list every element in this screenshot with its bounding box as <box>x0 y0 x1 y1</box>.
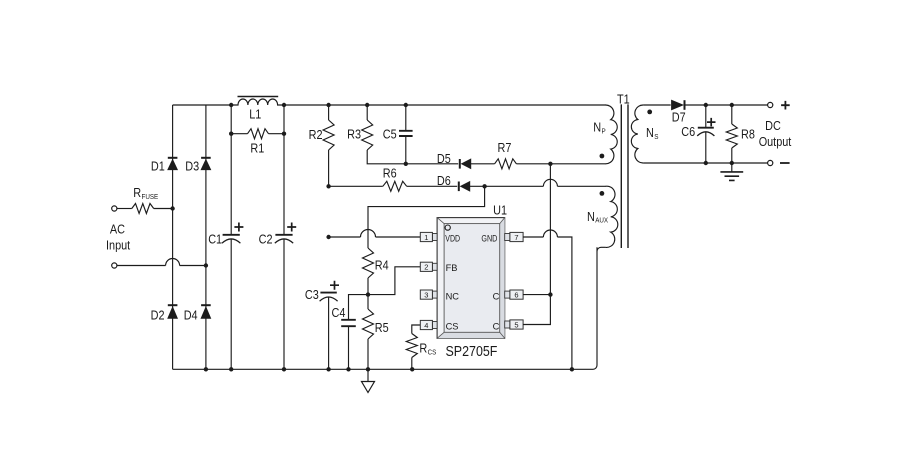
wire <box>180 265 206 267</box>
svg-text:3: 3 <box>424 290 428 299</box>
wire D6 to R4 <box>368 186 485 248</box>
label D1 <box>151 159 165 173</box>
resistor R4 <box>363 248 374 295</box>
label R5 <box>375 321 389 335</box>
wire <box>407 185 458 187</box>
node Ns polarity dot <box>647 110 652 115</box>
diode D5 <box>460 159 471 169</box>
svg-text:C: C <box>493 321 500 331</box>
svg-text:R5: R5 <box>375 321 389 335</box>
node C1 bottom <box>229 367 233 371</box>
svg-text:AC: AC <box>110 223 125 237</box>
svg-text:D5: D5 <box>437 152 451 166</box>
node R6 tap on R2 line <box>326 184 330 188</box>
svg-text:C1: C1 <box>208 233 222 247</box>
svg-text:R1: R1 <box>250 141 264 155</box>
wire hop over R4 line <box>361 230 376 237</box>
wire <box>117 208 132 210</box>
node R1 left <box>229 132 233 136</box>
node R8 top <box>730 103 734 107</box>
label - output <box>780 162 790 164</box>
capacitor C2 <box>275 134 296 370</box>
svg-text:AUX: AUX <box>595 216 608 225</box>
svg-text:C3: C3 <box>305 288 319 302</box>
pin-1 indicator <box>445 225 450 230</box>
svg-text:R8: R8 <box>741 128 755 142</box>
transformer T1 primary Np <box>605 105 617 164</box>
diode D2 <box>168 305 178 318</box>
label C3 <box>305 288 319 302</box>
capacitor C5 <box>399 105 413 164</box>
diode D4 <box>201 305 211 318</box>
transformer aux winding Naux <box>597 186 618 251</box>
label C6 <box>681 125 695 139</box>
capacitor C1 <box>222 134 243 370</box>
pin 1 <box>420 232 437 241</box>
wire pin7 to ground <box>557 237 572 369</box>
svg-text:NC: NC <box>446 291 460 301</box>
wire FB riser <box>368 267 420 295</box>
wire <box>117 265 166 267</box>
node C6 bottom <box>704 161 708 165</box>
wire secondary top <box>643 104 671 106</box>
label NC <box>446 291 460 301</box>
label C pin5 <box>493 321 500 331</box>
svg-text:VDD: VDD <box>445 233 460 243</box>
wire pin7 <box>523 236 543 238</box>
svg-text:T1: T1 <box>617 92 630 106</box>
wire R1 right leg <box>269 105 285 134</box>
wire rail D3/D4 <box>205 105 207 369</box>
transformer secondary Ns <box>631 105 643 163</box>
node R2 top <box>326 103 330 107</box>
svg-text:N: N <box>646 126 654 140</box>
node C3 bottom <box>326 367 330 371</box>
pin 3 <box>420 290 437 299</box>
svg-text:GND: GND <box>481 233 497 243</box>
svg-text:1: 1 <box>424 233 428 242</box>
diode D1 <box>168 158 178 170</box>
svg-text:CS: CS <box>428 347 437 356</box>
wire top rail <box>173 104 232 106</box>
label R2 <box>309 128 323 142</box>
svg-text:6: 6 <box>514 290 518 299</box>
node L1 left <box>229 103 233 107</box>
wire pin5 <box>523 295 550 325</box>
label D2 <box>151 308 165 322</box>
inductor L1 <box>231 97 284 106</box>
node R1 right <box>282 132 286 136</box>
diode D6 <box>459 182 470 192</box>
wire pin4 to RCS <box>412 325 421 334</box>
capacitor C4 <box>341 320 356 370</box>
node C6 top <box>704 103 708 107</box>
svg-text:SP2705F: SP2705F <box>446 344 498 360</box>
svg-text:N: N <box>587 210 595 224</box>
wire hop pin7 over C line <box>543 230 557 237</box>
label DC Output <box>759 119 792 149</box>
wire VDD line <box>329 236 361 238</box>
node R8 bottom <box>730 161 734 165</box>
wire top rail to transformer <box>284 104 606 106</box>
node R5 bottom <box>366 367 370 371</box>
label R6 <box>383 166 397 180</box>
label D5 <box>437 152 451 166</box>
label D7 <box>672 110 686 124</box>
node D6-R4 junction <box>482 184 486 188</box>
node pin7 ground <box>570 367 574 371</box>
wire C-pin vertical <box>549 164 551 295</box>
node C4 bottom <box>346 367 350 371</box>
label Ns <box>646 126 659 141</box>
DC output + terminal <box>768 102 773 107</box>
wire FB-C4 link <box>349 295 369 320</box>
svg-text:C5: C5 <box>383 128 397 142</box>
resistor R7 <box>495 159 517 169</box>
resistor R1 <box>248 129 269 139</box>
label U1 <box>493 203 507 217</box>
label R7 <box>498 141 512 155</box>
svg-text:P: P <box>602 126 606 135</box>
svg-text:Output: Output <box>759 135 792 149</box>
wire <box>154 208 173 210</box>
label FB <box>446 263 458 273</box>
wire secondary bottom <box>643 162 768 164</box>
node AC-D3D4 junction <box>204 263 208 267</box>
svg-text:D1: D1 <box>151 159 165 173</box>
resistor RFUSE <box>132 204 154 214</box>
capacitor C6 <box>697 105 715 163</box>
svg-text:C: C <box>493 291 500 301</box>
svg-text:C4: C4 <box>332 306 346 320</box>
svg-text:R: R <box>419 342 427 356</box>
svg-text:D2: D2 <box>151 308 165 322</box>
diode D3 <box>201 158 211 170</box>
op-amp U1 body (SP2705F) <box>437 218 505 339</box>
label SP2705F <box>446 344 498 360</box>
transformer core <box>621 104 628 248</box>
label R1 <box>250 141 264 155</box>
label R3 <box>347 128 361 142</box>
wire <box>686 104 768 106</box>
node VDD tap <box>326 235 330 239</box>
svg-text:FB: FB <box>446 263 458 273</box>
svg-text:R7: R7 <box>498 141 512 155</box>
wire hop over left rail <box>166 259 180 266</box>
diode D7 <box>672 100 685 110</box>
label D3 <box>185 159 199 173</box>
DC output - terminal <box>768 160 773 165</box>
node C2 bottom <box>282 367 286 371</box>
wire left rail <box>172 105 174 369</box>
resistor R3 <box>362 105 406 164</box>
svg-text:CS: CS <box>446 321 459 331</box>
resistor RCS <box>406 334 417 370</box>
label AC Input <box>106 223 131 253</box>
wire <box>471 163 495 165</box>
label RCS <box>419 342 436 357</box>
node RCS bottom <box>410 367 414 371</box>
svg-text:D4: D4 <box>184 308 198 322</box>
svg-text:4: 4 <box>424 321 428 330</box>
wire hop over C-pin line <box>543 179 557 186</box>
node pin6 junction <box>548 292 552 296</box>
wire <box>470 185 544 187</box>
earth ground <box>720 163 743 180</box>
label + output <box>781 101 790 110</box>
node Naux polarity dot <box>600 191 605 196</box>
label Np <box>593 121 606 136</box>
label VDD <box>445 233 460 243</box>
node R4-R5-FB junction <box>366 292 370 296</box>
svg-text:R: R <box>133 186 141 200</box>
resistor R8 <box>726 105 737 163</box>
svg-text:D6: D6 <box>437 174 451 188</box>
ground <box>362 369 375 392</box>
wire <box>516 163 605 165</box>
wire <box>329 185 383 187</box>
wire R1 left leg <box>231 105 247 134</box>
wire pin6 <box>523 294 550 296</box>
pin 2 <box>420 262 437 271</box>
svg-text:2: 2 <box>424 263 428 272</box>
label R4 <box>375 259 389 273</box>
label T1 <box>617 92 630 106</box>
node D4 bottom <box>204 367 208 371</box>
label D4 <box>184 308 198 322</box>
pin 7 <box>505 232 523 241</box>
wire <box>406 163 458 165</box>
capacitor C3 <box>320 281 339 370</box>
svg-text:5: 5 <box>514 320 518 329</box>
label CS <box>446 321 459 331</box>
label C1 <box>208 233 222 247</box>
label GND <box>481 233 497 243</box>
svg-text:Input: Input <box>106 239 131 253</box>
svg-text:D3: D3 <box>185 159 199 173</box>
node C5 top <box>404 103 408 107</box>
svg-text:FUSE: FUSE <box>142 192 159 201</box>
label D6 <box>437 174 451 188</box>
node L1 right <box>282 103 286 107</box>
label R8 <box>741 128 755 142</box>
node fuse-bridge junction <box>170 206 174 210</box>
label C4 <box>332 306 346 320</box>
label RFUSE <box>133 186 158 201</box>
svg-text:C6: C6 <box>681 125 695 139</box>
svg-text:S: S <box>654 132 658 141</box>
svg-text:7: 7 <box>514 233 518 242</box>
pin 6 <box>505 290 523 299</box>
node Np polarity dot <box>600 154 605 159</box>
label C pin6 <box>493 291 500 301</box>
label L1 <box>249 108 261 122</box>
pin 4 <box>420 320 437 329</box>
svg-text:U1: U1 <box>493 203 507 217</box>
AC input terminal (bottom) <box>112 263 117 268</box>
svg-text:D7: D7 <box>672 110 686 124</box>
svg-text:DC: DC <box>765 119 781 133</box>
wire ground rail <box>173 247 597 369</box>
wire <box>557 185 605 187</box>
node R3 top <box>365 103 369 107</box>
resistor R2 <box>323 105 334 186</box>
svg-text:R6: R6 <box>383 166 397 180</box>
svg-text:R4: R4 <box>375 259 389 273</box>
label C5 <box>383 128 397 142</box>
label C2 <box>259 233 273 247</box>
resistor R6 <box>383 181 407 191</box>
node R7-Np junction <box>548 162 552 166</box>
resistor R5 <box>363 295 374 370</box>
node C5 bottom <box>404 162 408 166</box>
AC input terminal (top) <box>112 206 117 211</box>
svg-text:N: N <box>593 121 601 135</box>
pin 5 <box>505 320 523 329</box>
label Naux <box>587 210 608 225</box>
svg-text:R3: R3 <box>347 128 361 142</box>
svg-text:R2: R2 <box>309 128 323 142</box>
svg-text:L1: L1 <box>249 108 261 122</box>
svg-text:C2: C2 <box>259 233 273 247</box>
wire <box>376 236 421 238</box>
